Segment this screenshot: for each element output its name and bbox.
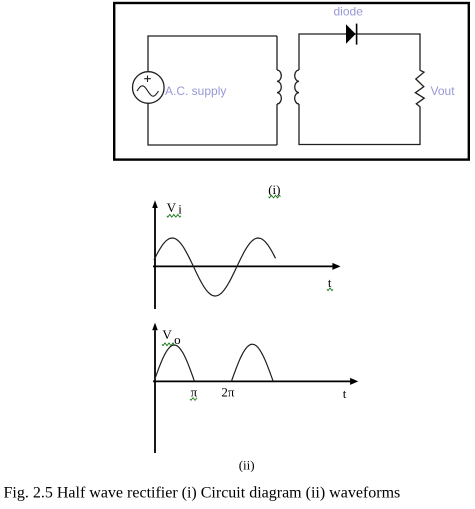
svg-text:o: o [174,332,181,347]
svg-text:V: V [167,200,177,215]
svg-text:diode: diode [334,5,364,19]
svg-text:t: t [343,386,347,401]
svg-text:(ii): (ii) [239,457,255,472]
svg-text:V: V [162,327,172,342]
svg-text:2π: 2π [221,385,235,400]
svg-text:π: π [191,384,198,399]
svg-text:Fig. 2.5 Half wave rectifier (: Fig. 2.5 Half wave rectifier (i) Circuit… [4,485,401,502]
svg-text:Vout: Vout [431,84,456,98]
svg-text:A.C. supply: A.C. supply [165,84,226,98]
svg-text:(i): (i) [268,182,280,197]
svg-text:i: i [178,202,182,217]
